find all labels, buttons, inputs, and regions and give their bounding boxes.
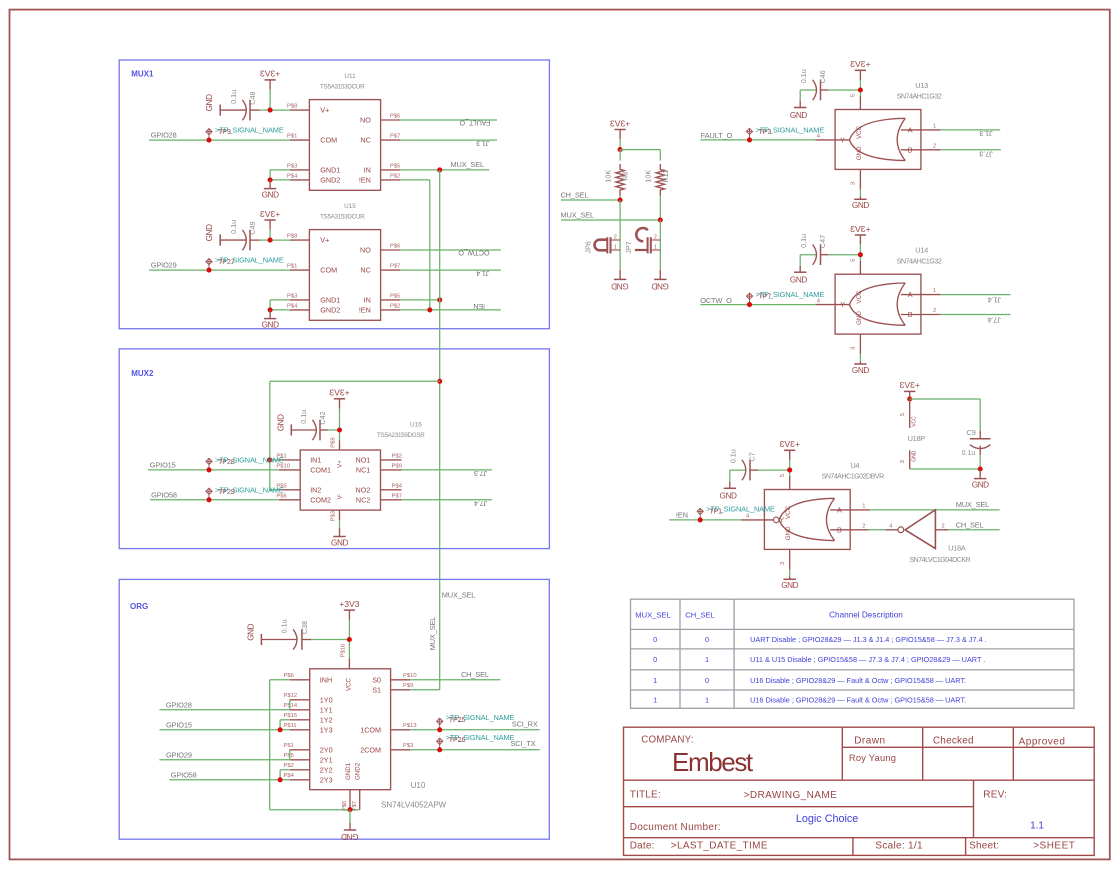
svg-text:P$2: P$2: [392, 454, 402, 460]
svg-text:COM2: COM2: [310, 495, 331, 504]
svg-text:Scale: 1/1: Scale: 1/1: [875, 841, 923, 852]
wire U15 GND1 elbow: [270, 299, 290, 301]
svg-text:1: 1: [654, 244, 657, 250]
junction +3V3 R3/R11: [618, 147, 623, 152]
wire J7.4 from U14 pin2: [941, 314, 1011, 316]
svg-text:GND: GND: [720, 492, 737, 501]
ground GND below U11: [269, 180, 271, 189]
IC U16 TS5A23159DGSR body: [300, 450, 380, 510]
svg-text:J1.4: J1.4: [988, 295, 1001, 304]
junction CH_SEL/R3: [618, 197, 623, 202]
svg-text:CH_SEL: CH_SEL: [956, 520, 984, 529]
svg-text:P$9: P$9: [392, 464, 402, 470]
svg-text:P$5: P$5: [284, 753, 294, 759]
capacitor C46 0.1u: [799, 90, 801, 101]
svg-text:4: 4: [817, 134, 821, 140]
svg-text:GND: GND: [852, 201, 869, 210]
svg-text:>TP_SIGNAL_NAME: >TP_SIGNAL_NAME: [446, 733, 515, 742]
wire GPIO58 to U10 2Y3: [170, 779, 290, 781]
svg-text:GND1: GND1: [320, 166, 340, 175]
wire GPIO15 to U10 1Y3: [159, 729, 289, 731]
svg-text:0.1u: 0.1u: [799, 69, 808, 83]
svg-text:UART Disable ; GPIO28&29 — J1.: UART Disable ; GPIO28&29 — J1.3 & J1.4 ;…: [750, 635, 987, 644]
wire R11 to MUX_SEL: [659, 196, 661, 221]
svg-text:GND: GND: [781, 581, 798, 590]
svg-text:OCTW_O: OCTW_O: [700, 296, 732, 305]
svg-text:J7.4: J7.4: [474, 499, 487, 508]
pin 3 U4 (GND): [789, 549, 791, 569]
junction +3V3/C46/U13: [858, 87, 863, 92]
pin U11 P$1 (COM): [290, 139, 309, 141]
pin 3 U13 (GND): [859, 169, 861, 189]
gate U14 OR shape: [850, 283, 906, 325]
svg-text:2: 2: [862, 523, 865, 529]
pin U10 P$8 bottom: [349, 790, 351, 810]
svg-text:3: 3: [851, 347, 857, 350]
wire 2Y0 tap: [289, 750, 291, 760]
svg-text:1Y0: 1Y0: [320, 696, 333, 705]
wire GPIO15 to U16 COM1: [148, 469, 279, 471]
svg-text:U18P: U18P: [908, 434, 926, 443]
wire U15 GND2: [270, 309, 290, 311]
svg-text:P$3: P$3: [287, 163, 297, 169]
svg-text:NC1: NC1: [356, 466, 370, 475]
wire J1.4 from U14 pin1: [941, 294, 1011, 296]
svg-text:!EN: !EN: [473, 302, 485, 311]
pin U16 P$4 (NO2): [381, 489, 402, 491]
svg-text:>TP_SIGNAL_NAME: >TP_SIGNAL_NAME: [215, 455, 284, 464]
pin U10 P$15: [290, 719, 310, 721]
capacitor C47 0.1u: [799, 255, 801, 266]
pin U15 P$3 (GND1): [290, 299, 309, 301]
junction GPIO58/TP29: [206, 497, 211, 502]
svg-text:4: 4: [746, 514, 750, 520]
svg-text:3: 3: [900, 460, 906, 463]
svg-text:V+: V+: [320, 106, 329, 115]
ground GND below U14: [859, 361, 861, 364]
svg-text:GPIO29: GPIO29: [166, 750, 192, 759]
gate U4 OR shape: [779, 498, 834, 540]
svg-text:U15: U15: [344, 203, 356, 210]
svg-text:P$6: P$6: [390, 114, 400, 120]
svg-text:SCI_RX: SCI_RX: [512, 719, 538, 728]
svg-text:Approved: Approved: [1019, 736, 1066, 747]
inverter U18A SN74LVC1G04DCKR: [905, 510, 935, 549]
inverter U18A bubble: [898, 527, 904, 533]
svg-text:GND: GND: [341, 832, 358, 841]
pin U10 P$4: [290, 779, 310, 781]
jumper JP6: [606, 237, 608, 253]
pin 3 U14 (GND): [859, 334, 861, 354]
svg-text:NC: NC: [360, 266, 370, 275]
wire MUX_SEL from U4 pin1: [870, 509, 1000, 511]
svg-text:SN74LV4052APW: SN74LV4052APW: [381, 801, 447, 810]
svg-text:NC2: NC2: [356, 495, 370, 504]
svg-text:GND: GND: [611, 281, 628, 290]
junction +3V3/U18P/C9: [907, 396, 912, 401]
svg-text:0: 0: [653, 635, 657, 644]
svg-text:+3V3: +3V3: [260, 209, 281, 219]
svg-text:>DRAWING_NAME: >DRAWING_NAME: [744, 790, 837, 801]
svg-text:0.1u: 0.1u: [229, 90, 238, 104]
svg-text:Date:: Date:: [630, 841, 655, 852]
svg-text:NO2: NO2: [356, 485, 371, 494]
wire MUX_SEL down to IN1/IN2: [269, 381, 271, 490]
svg-text:+3V3: +3V3: [339, 599, 360, 609]
wire MUX_SEL mid: [561, 219, 660, 221]
svg-text:GND: GND: [856, 146, 863, 160]
svg-text:Channel Description: Channel Description: [829, 611, 903, 620]
testpoint TP25 on SCI_RX: [437, 718, 443, 730]
svg-text:R3: R3: [621, 172, 630, 181]
svg-text:GND: GND: [276, 414, 285, 431]
svg-text:1: 1: [614, 244, 617, 250]
svg-text:FAULT_O: FAULT_O: [701, 131, 733, 140]
svg-text:1: 1: [862, 504, 865, 510]
wire SCI_TX from 2COM: [410, 749, 539, 751]
svg-text:>TP_SIGNAL_NAME: >TP_SIGNAL_NAME: [756, 125, 825, 134]
svg-text:GND2: GND2: [320, 176, 340, 185]
wire MUX_SEL vertical main: [439, 170, 441, 690]
svg-text:NO: NO: [360, 246, 371, 255]
svg-text:GND: GND: [205, 94, 214, 111]
pin 2 U13 (B): [901, 149, 941, 151]
junction +3V3/C49/U15: [268, 238, 273, 243]
wire INH loop: [270, 679, 290, 681]
svg-text:GND: GND: [262, 321, 279, 330]
svg-text:U13: U13: [915, 81, 928, 90]
svg-text:1: 1: [653, 676, 657, 685]
junction IEN/TP1: [698, 517, 703, 522]
svg-text:P$7: P$7: [390, 134, 400, 140]
wire to U16 IN1: [270, 459, 279, 461]
svg-text:J1.3: J1.3: [476, 139, 489, 148]
pin 5 U14 (VCC): [859, 261, 861, 275]
svg-text:R11: R11: [661, 170, 670, 183]
junction U16 IN1: [267, 457, 272, 462]
title block frame: [624, 727, 1095, 855]
pin U16 P$6 (COM2): [279, 499, 300, 501]
svg-text:10K: 10K: [644, 170, 653, 183]
svg-text:P$3: P$3: [403, 743, 413, 749]
wire U11 !EN elbow down: [400, 179, 430, 181]
svg-text:GND: GND: [246, 623, 255, 640]
svg-text:>TP_SIGNAL_NAME: >TP_SIGNAL_NAME: [215, 256, 284, 265]
wire CH_SEL: [561, 199, 620, 201]
svg-text:U16 Disable ; GPIO28&29 — Faul: U16 Disable ; GPIO28&29 — Fault & Octw ;…: [750, 695, 966, 704]
wire GPIO28 to U11 COM: [149, 139, 290, 141]
svg-text:>TP_SIGNAL_NAME: >TP_SIGNAL_NAME: [215, 126, 284, 135]
wire GPIO29 to U10 2Y1: [159, 759, 289, 761]
pin U10 P$13 (1COM): [391, 729, 411, 731]
svg-text:V+: V+: [336, 460, 343, 468]
svg-text:>TP_SIGNAL_NAME: >TP_SIGNAL_NAME: [215, 485, 284, 494]
svg-text:U16 Disable ; GPIO28&29 — Faul: U16 Disable ; GPIO28&29 — Fault & Octw ;…: [750, 676, 966, 685]
capacitor C9 0.1u: [979, 431, 981, 439]
svg-text:3: 3: [780, 562, 786, 565]
svg-text:1: 1: [933, 124, 936, 130]
svg-text:P$4: P$4: [287, 173, 298, 179]
svg-text:C46: C46: [818, 70, 827, 83]
svg-text:5: 5: [900, 413, 906, 416]
svg-text:+3V3: +3V3: [850, 59, 871, 69]
svg-text:C38: C38: [300, 621, 309, 634]
pin U11 P$6 (NO): [381, 119, 401, 121]
svg-text:0.1u: 0.1u: [299, 410, 308, 424]
svg-text:+3V3: +3V3: [329, 388, 350, 398]
capacitor C38 0.1u: [260, 634, 262, 645]
svg-text:P$5: P$5: [390, 163, 400, 169]
pin U10 P$1: [290, 749, 310, 751]
svg-text:J7.3: J7.3: [979, 149, 992, 158]
svg-text:+3V3: +3V3: [779, 439, 800, 449]
junction GPIO15/TP28: [206, 467, 211, 472]
svg-text:P$8: P$8: [287, 104, 297, 110]
pin U16 P$2 (NO1): [381, 459, 402, 461]
wire U15 !EN / IEN out: [400, 309, 501, 311]
pin U15 P$1 (COM): [290, 269, 309, 271]
svg-text:2Y1: 2Y1: [320, 756, 333, 765]
svg-text:P$3: P$3: [331, 511, 337, 521]
svg-text:Checked: Checked: [933, 735, 974, 746]
block box ORG: [119, 579, 549, 839]
svg-text:Logic Choice: Logic Choice: [796, 813, 858, 825]
svg-text:P$11: P$11: [284, 723, 297, 729]
svg-text:0.1u: 0.1u: [962, 450, 976, 457]
svg-text:GPIO58: GPIO58: [151, 491, 177, 500]
svg-text:TS5A3153DCUR: TS5A3153DCUR: [320, 214, 365, 221]
junction SCI_TX/TP26: [437, 747, 442, 752]
svg-text:GND1: GND1: [320, 296, 340, 305]
junction MUX_SEL at U15 IN: [437, 297, 442, 302]
pin U15 P$6 (NO): [381, 249, 401, 251]
svg-text:J7.4: J7.4: [988, 315, 1001, 324]
pin U11 P$3 (GND1): [290, 169, 309, 171]
svg-text:GND: GND: [262, 191, 279, 200]
wire MUX_SEL down to JP7: [659, 220, 661, 270]
svg-text:1: 1: [933, 288, 936, 294]
capacitor C42 0.1u: [290, 424, 292, 435]
capacitor C48 0.1u: [219, 105, 221, 116]
svg-text:P$6: P$6: [390, 244, 400, 250]
pin U11 P$5 (IN): [381, 169, 401, 171]
svg-text:NC: NC: [360, 136, 370, 145]
junction FAULT_O/TP3: [747, 137, 752, 142]
svg-text:FAULT_O: FAULT_O: [459, 119, 490, 128]
svg-text:P$8: P$8: [331, 437, 337, 447]
svg-text:C47: C47: [818, 235, 827, 248]
svg-text:1COM: 1COM: [360, 726, 381, 735]
svg-text:P$1: P$1: [287, 264, 297, 270]
pin U16 P$1 (IN1): [279, 459, 300, 461]
junction U15 GND: [268, 307, 273, 312]
svg-text:VCC: VCC: [912, 416, 918, 427]
svg-text:+3V3: +3V3: [260, 69, 281, 79]
pin U10 P$11: [290, 729, 310, 731]
wire CH_SEL from S0: [410, 679, 500, 681]
junction +3V3/C7/U4: [787, 468, 792, 473]
svg-text:P$8: P$8: [287, 234, 297, 240]
pin U10 P$14: [290, 709, 310, 711]
svg-text:COM: COM: [320, 136, 337, 145]
svg-text:GND: GND: [205, 224, 214, 241]
svg-text:MUX1: MUX1: [131, 69, 154, 78]
svg-text:S0: S0: [372, 676, 381, 685]
wire U11 GND2: [270, 179, 290, 181]
junction IEN at U15 !EN: [427, 307, 432, 312]
svg-text:GND: GND: [651, 281, 668, 290]
pin U16 P$3 (GND) bottom: [339, 510, 341, 520]
pin U15 P$7 (NC): [381, 269, 401, 271]
resistor R11 10K: [656, 164, 664, 196]
wire J1.3 from U13 pin1: [941, 129, 1001, 131]
svg-text:P$9: P$9: [403, 683, 413, 689]
svg-text:GND: GND: [790, 111, 807, 120]
wire MUX_SEL feed across MUX2: [270, 380, 440, 382]
junction GPIO28/TP9: [206, 138, 211, 143]
svg-text:V+: V+: [320, 236, 329, 245]
svg-text:5: 5: [780, 474, 786, 477]
svg-text:TS5A3153DCUR: TS5A3153DCUR: [320, 84, 365, 91]
svg-text:>TP_SIGNAL_NAME: >TP_SIGNAL_NAME: [756, 290, 825, 299]
wire CH_SEL from U18A: [949, 529, 1000, 531]
wire +3V3 to U11 V+: [270, 109, 290, 111]
svg-text:1: 1: [653, 695, 657, 704]
pin 2 U14 (B): [901, 314, 941, 316]
svg-text:+3V3: +3V3: [850, 224, 871, 234]
svg-text:COMPANY:: COMPANY:: [641, 735, 694, 746]
svg-text:P$4: P$4: [284, 773, 295, 779]
pin U15 P$4 (GND2): [290, 309, 309, 311]
pin 4 U14 (Y): [815, 304, 849, 306]
junction GPIO15 taps: [278, 727, 283, 732]
svg-text:2: 2: [654, 234, 657, 240]
pin 5 U13 (VCC): [859, 96, 861, 110]
IC U15 TS5A3153DCUR body: [309, 230, 380, 321]
pin 1 U13 (A): [901, 129, 941, 131]
svg-text:VCC: VCC: [856, 125, 863, 139]
svg-text:GND: GND: [912, 450, 918, 462]
svg-text:VCC: VCC: [345, 677, 352, 691]
testpoint TP26 on SCI_TX: [437, 738, 443, 750]
power block U18P: [909, 399, 911, 428]
gate U13 SN74AHC1G32 body: [835, 110, 921, 170]
wire J1.4 from U15 NC: [400, 269, 501, 271]
pin 4 U4 (Y): [741, 519, 774, 521]
svg-text:2Y0: 2Y0: [320, 746, 333, 755]
junction +3V3/C42/U16: [337, 427, 342, 432]
svg-text:P$2: P$2: [284, 763, 294, 769]
ground GND below U15: [269, 310, 271, 319]
svg-text:GND: GND: [785, 526, 792, 540]
svg-text:REV:: REV:: [983, 790, 1007, 801]
IC U10 SN74LV4052APW body: [310, 669, 391, 790]
svg-text:1Y3: 1Y3: [320, 726, 333, 735]
svg-text:P$13: P$13: [403, 723, 417, 729]
svg-text:NO: NO: [360, 116, 371, 125]
svg-text:COM1: COM1: [310, 466, 331, 475]
wire OCTW_O to U14 Y: [701, 304, 816, 306]
pin U11 P$4 (GND2): [290, 179, 309, 181]
svg-text:C42: C42: [318, 411, 327, 424]
pin 5 U4 (VCC): [789, 476, 791, 490]
capacitor C7 0.1u: [729, 470, 731, 482]
svg-text:0.1u: 0.1u: [729, 449, 738, 463]
pin 2 U4 (B): [830, 529, 870, 531]
pin U10 P$5: [290, 759, 310, 761]
wire 1Y2 tap elbow: [280, 719, 290, 721]
junction C9 GND: [978, 466, 983, 471]
svg-text:J1.4: J1.4: [476, 269, 489, 278]
ground GND below U13: [859, 197, 861, 200]
svg-text:GPIO28: GPIO28: [151, 131, 177, 140]
svg-text:0: 0: [705, 635, 709, 644]
capacitor C49 0.1u: [219, 235, 221, 246]
svg-text:GND2: GND2: [320, 306, 340, 315]
wire 1Y0 tap: [289, 700, 291, 710]
gate U4 SN74AHC1G02DBVR body: [764, 490, 850, 550]
svg-text:!EN: !EN: [359, 306, 371, 315]
wire J7.4 from U16 NC2: [402, 499, 493, 501]
svg-text:+3V3: +3V3: [610, 118, 631, 128]
svg-text:1: 1: [705, 695, 709, 704]
svg-text:!EN: !EN: [359, 176, 371, 185]
testpoint TP29 on GPIO58: [206, 488, 212, 500]
testpoint TP9 on GPIO28: [206, 129, 212, 141]
svg-text:U11 & U15 Disable ; GPIO15&58: U11 & U15 Disable ; GPIO15&58 — J7.3 & J…: [750, 655, 985, 664]
pin U16 P$9 (NC1): [381, 469, 402, 471]
pin U16 P$8 (V+) top: [339, 430, 341, 441]
wire J7.3 from U16 NC1: [402, 469, 493, 471]
svg-text:C7: C7: [748, 452, 757, 461]
pin U15 P$8 (V+): [290, 239, 309, 241]
svg-text:1Y2: 1Y2: [320, 716, 333, 725]
wire GPIO58 to U16 COM2: [150, 499, 279, 501]
svg-text:2Y3: 2Y3: [320, 776, 333, 785]
wire J7.3 from U13 pin2: [941, 149, 1001, 151]
junction U11 GND: [268, 177, 273, 182]
block box MUX1: [119, 60, 549, 329]
svg-text:2COM: 2COM: [360, 746, 381, 755]
pin U11 P$2 (!EN): [381, 179, 401, 181]
svg-text:IN1: IN1: [310, 456, 321, 465]
svg-text:SN74LVC1G04DCKR: SN74LVC1G04DCKR: [909, 557, 970, 564]
resistor R3 10K: [619, 150, 621, 161]
ground GND below U16: [339, 528, 341, 537]
wire U4 pin2 to U18A: [868, 529, 886, 531]
svg-text:TS5A23159DGSR: TS5A23159DGSR: [377, 432, 425, 439]
wire GPIO28 to U10 1Y1: [159, 709, 289, 711]
testpoint TP28 on GPIO15: [206, 458, 212, 470]
pin 4 U13 (Y): [815, 139, 849, 141]
svg-text:JP6: JP6: [583, 241, 592, 253]
junction +3V3/C38/U10: [347, 637, 352, 642]
pin 2 U18A (out): [935, 529, 948, 531]
junction +3V3/C47/U14: [858, 252, 863, 257]
svg-text:P$2: P$2: [390, 303, 400, 309]
svg-text:0: 0: [705, 676, 709, 685]
svg-text:JP7: JP7: [624, 241, 633, 253]
svg-text:MUX_SEL: MUX_SEL: [442, 591, 475, 600]
pin U10 P$12: [290, 699, 310, 701]
svg-text:GPIO15: GPIO15: [150, 461, 176, 470]
wire SCI_RX from 1COM: [410, 729, 539, 731]
svg-text:P$14: P$14: [284, 703, 298, 709]
gate U13 OR shape: [850, 118, 906, 160]
pin U10 P$3 (2COM): [391, 749, 411, 751]
pin U16 P$10 (COM1): [279, 469, 300, 471]
wire CH_SEL down to JP6: [619, 200, 621, 270]
